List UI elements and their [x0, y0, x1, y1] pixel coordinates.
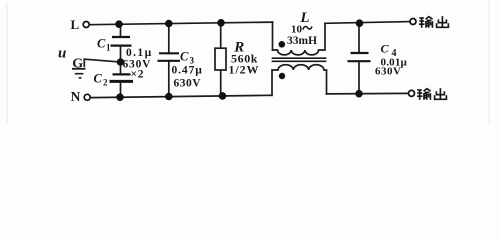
- svg-text:C: C: [94, 72, 103, 86]
- svg-text:C: C: [381, 42, 390, 56]
- svg-text:1: 1: [106, 43, 111, 53]
- svg-text:u: u: [58, 46, 66, 62]
- svg-text:×2: ×2: [131, 68, 145, 80]
- svg-text:C: C: [180, 50, 189, 64]
- svg-text:C: C: [97, 37, 106, 51]
- svg-text:0.1µ: 0.1µ: [126, 47, 153, 59]
- svg-text:N: N: [71, 89, 81, 104]
- svg-text:0.47µ: 0.47µ: [172, 65, 203, 77]
- svg-text:1/2W: 1/2W: [229, 63, 260, 77]
- svg-text:10: 10: [291, 24, 303, 36]
- svg-text:L: L: [71, 17, 80, 32]
- svg-text:2: 2: [103, 78, 108, 88]
- svg-text:630V: 630V: [375, 66, 401, 78]
- svg-text:33mH: 33mH: [287, 35, 317, 47]
- svg-text:630V: 630V: [174, 78, 202, 90]
- svg-text:G: G: [72, 56, 83, 71]
